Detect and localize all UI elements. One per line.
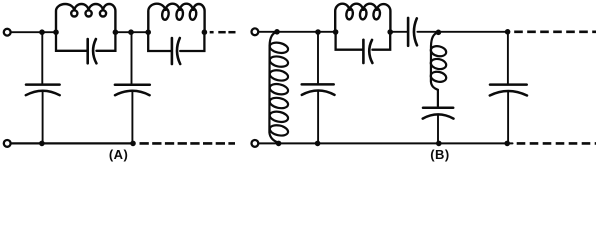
node tank3 left: [333, 29, 339, 35]
node junction top of L3: [274, 29, 280, 35]
wire C7 to output section: [417, 31, 508, 33]
inductor L5 (series LC shunt branch): [430, 32, 447, 106]
node tank3 right: [387, 29, 393, 35]
wire top input (B): [259, 31, 335, 33]
capacitor C1 plates: [26, 85, 60, 96]
capacitor C4 (tank 2, parallel with L2): [148, 32, 204, 64]
capacitor C8 lead bottom: [437, 114, 439, 143]
node junction bottom of LC branch: [436, 141, 442, 147]
capacitor C9 plates: [490, 85, 527, 96]
node junction top of C9: [505, 29, 511, 35]
inductor L4 (series, tank 3): [335, 4, 390, 33]
capacitor C7 (series) plates: [408, 18, 417, 46]
capacitor C6 (tank 3, parallel with L4): [336, 32, 391, 63]
capacitor C3 plates: [115, 85, 150, 96]
capacitor C8 (series LC shunt branch) plates: [423, 108, 454, 119]
node junction bottom of C5: [315, 141, 321, 147]
capacitor C5 lead bottom: [317, 91, 319, 144]
capacitor C1 lead bottom: [42, 91, 44, 143]
wire top between tank1 and tank2: [115, 31, 148, 33]
capacitor C3 shunt lead top: [131, 32, 133, 83]
wire bottom bus (A): [12, 142, 134, 144]
node junction top of C5: [315, 29, 321, 35]
node junction top of L5 branch: [436, 30, 442, 36]
svg-text:(B): (B): [430, 147, 450, 162]
node junction top of C1: [39, 29, 45, 35]
wire dashed continuation bottom (A): [140, 142, 236, 145]
wire top input (A): [12, 31, 56, 33]
wire bottom bus (B): [259, 142, 512, 144]
capacitor C9 lead bottom: [507, 91, 509, 143]
node junction bottom of L3: [276, 141, 282, 147]
node tank2 left: [145, 29, 151, 35]
terminal input top (B): [252, 28, 259, 35]
wire dashed continuation top (A): [210, 31, 236, 34]
inductor L1 (series, tank 1): [56, 4, 115, 33]
capacitor C2 (tank 1, parallel with L1): [56, 32, 115, 63]
capacitor C5 plates: [302, 84, 335, 95]
node junction top of C3: [128, 29, 134, 35]
wire dashed continuation top (B): [514, 30, 596, 33]
node junction bottom of C3: [130, 141, 136, 147]
node junction bottom of C1: [39, 141, 45, 147]
capacitor C3 lead bottom: [131, 91, 133, 143]
wire tank3 to C7: [390, 31, 407, 33]
capacitor C1 shunt lead top: [41, 32, 43, 83]
terminal input bottom (B): [252, 140, 259, 147]
node tank1 left: [53, 29, 59, 35]
svg-text:(A): (A): [109, 147, 129, 162]
capacitor C5 shunt lead top: [317, 32, 319, 83]
wire dashed continuation bottom (B): [517, 142, 596, 145]
node junction bottom of C9: [504, 141, 510, 147]
node tank2 right: [202, 29, 208, 35]
terminal input bottom (A): [4, 140, 11, 147]
capacitor C9 shunt lead top: [507, 32, 509, 83]
node tank1 right: [113, 29, 119, 35]
terminal input top (A): [4, 29, 11, 36]
inductor L2 (series, tank 2): [148, 4, 204, 33]
inductor L3 (shunt coil): [269, 32, 289, 143]
